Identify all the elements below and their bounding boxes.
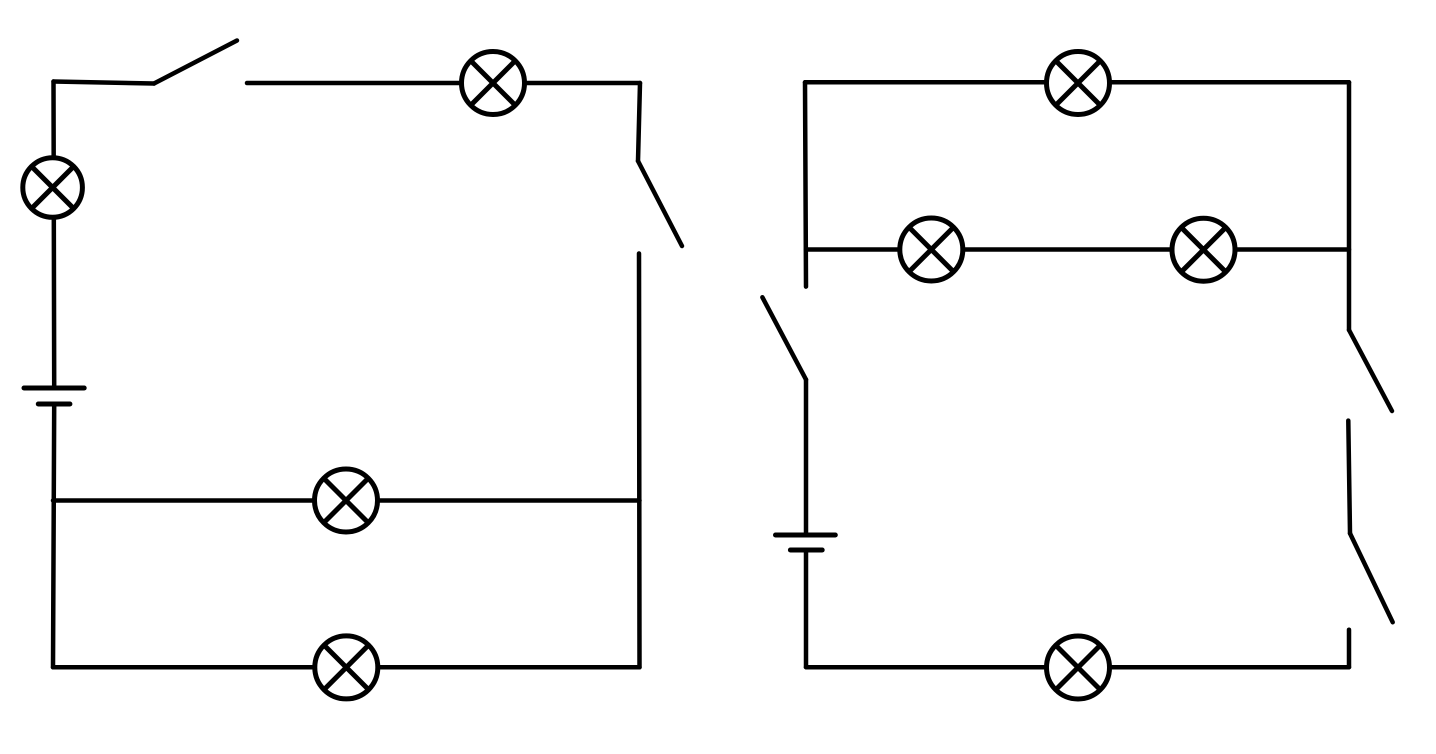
battery B2 short plate (negative) bbox=[790, 548, 822, 553]
wire left vertical middle (circuit 2) bbox=[804, 380, 809, 535]
wire middle horizontal branch (circuit 1) bbox=[53, 498, 640, 503]
wire right vertical middle (circuit 2) bbox=[1348, 421, 1350, 534]
wire second horizontal branch (circuit 2) bbox=[806, 247, 1349, 252]
lamp L4 (bottom wire, circuit 1) bbox=[315, 636, 378, 699]
battery B1 short plate (negative) bbox=[38, 402, 70, 407]
wire bottom horizontal (circuit 2) bbox=[806, 665, 1349, 670]
switch S2 (open, right side of circuit 1) bbox=[638, 161, 682, 246]
wire left vertical upper (circuit 1) bbox=[51, 82, 56, 389]
wire left vertical lower (circuit 2) bbox=[804, 550, 809, 667]
lamp R2 (second branch left, circuit 2) bbox=[900, 218, 963, 281]
wire left vertical upper (circuit 2) bbox=[805, 82, 806, 286]
wire top horizontal right of switch S1 (circuit 1) bbox=[247, 81, 640, 86]
lamp L2 (top wire, circuit 1) bbox=[462, 52, 525, 115]
wire bottom horizontal (circuit 1) bbox=[53, 665, 640, 670]
lamp R4 (bottom wire, circuit 2) bbox=[1047, 636, 1110, 699]
wire right vertical lower (circuit 1) bbox=[637, 254, 642, 668]
switch S1 (open, top of circuit 1) bbox=[154, 41, 237, 84]
wire right vertical upper (circuit 1) bbox=[638, 83, 640, 161]
lamp L3 (middle branch, circuit 1) bbox=[315, 469, 378, 532]
lamp L1 (left vertical, circuit 1) bbox=[23, 158, 83, 218]
lamp R3 (second branch right, circuit 2) bbox=[1172, 218, 1235, 281]
wire right vertical lower (circuit 2) bbox=[1347, 630, 1352, 668]
wire right vertical upper (circuit 2) bbox=[1347, 82, 1352, 330]
battery B2 long plate (positive) bbox=[776, 533, 836, 538]
wire top-left horizontal (circuit 1) bbox=[54, 82, 155, 84]
wire left vertical lower (circuit 1) bbox=[53, 404, 54, 667]
switch S4 (open, right side upper, circuit 2) bbox=[1349, 330, 1392, 411]
lamp R1 (top wire, circuit 2) bbox=[1047, 52, 1110, 115]
switch S3 (open, left side of circuit 2) bbox=[762, 297, 806, 379]
battery B1 long plate (positive) bbox=[24, 386, 84, 391]
wire top horizontal (circuit 2) bbox=[805, 80, 1349, 85]
switch S5 (open, right side lower, circuit 2) bbox=[1350, 533, 1393, 622]
